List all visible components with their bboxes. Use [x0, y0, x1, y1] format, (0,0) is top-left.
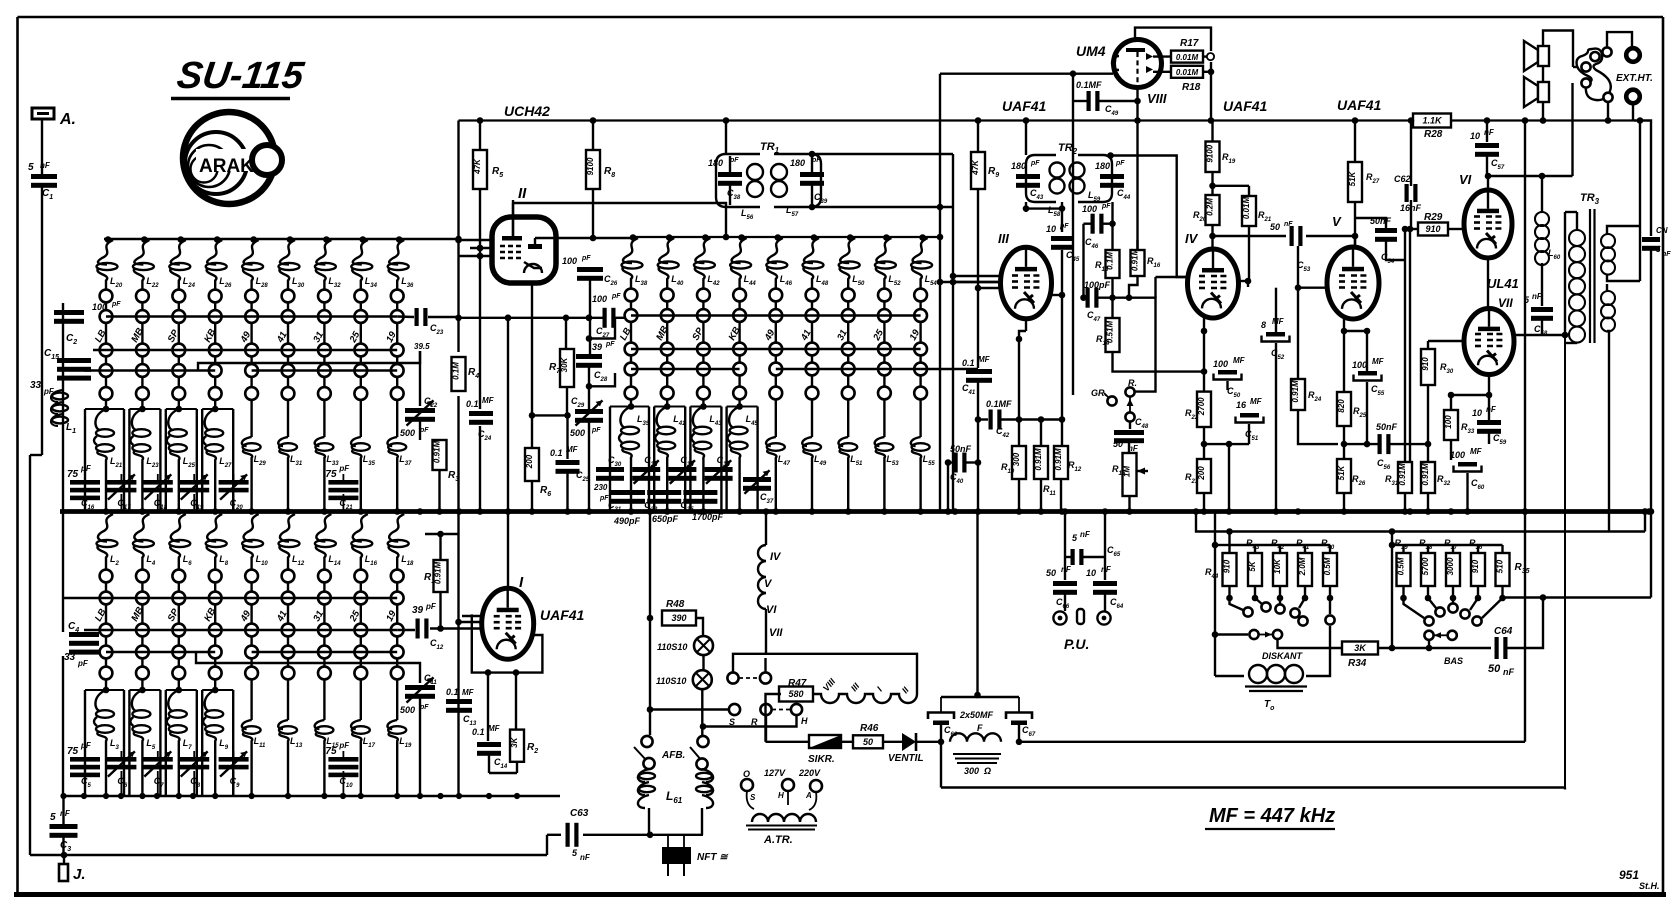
svg-text:820: 820	[1337, 399, 1346, 413]
svg-text:MF: MF	[1470, 447, 1483, 456]
label VIII	[1147, 91, 1167, 106]
label L61	[666, 789, 683, 805]
switch contact row5 col8 middle	[878, 387, 891, 400]
wire C56 right	[1390, 441, 1431, 448]
svg-text:0.51M: 0.51M	[1106, 321, 1115, 344]
svg-text:180: 180	[790, 158, 805, 168]
capacitor C30	[596, 455, 624, 481]
switch contact row1 col3 upper-left	[172, 290, 185, 303]
wire stem middle	[919, 301, 921, 407]
TR3 secondary lower	[1601, 291, 1615, 332]
svg-text:390: 390	[671, 613, 686, 623]
switch contact row3 col3 lower-left	[172, 624, 185, 637]
vertical x1410	[1409, 229, 1411, 462]
svg-text:51K: 51K	[1337, 464, 1346, 480]
plug contact a	[1581, 62, 1590, 71]
GR contact	[1091, 388, 1117, 406]
svg-text:UAF41: UAF41	[1337, 97, 1382, 113]
switch contact row2 col2 middle	[661, 309, 674, 322]
wire left bank top bus	[104, 238, 459, 240]
switch contact row4 col2 lower-left	[136, 646, 149, 659]
PU terminal b	[1097, 611, 1110, 624]
svg-text:910: 910	[1223, 559, 1232, 573]
svg-text:pF: pF	[729, 157, 739, 164]
svg-text:VENTIL: VENTIL	[888, 753, 924, 764]
wire PU right	[1104, 512, 1106, 612]
dot x1525 bus	[1522, 117, 1529, 515]
wire stem upper-left	[396, 302, 398, 409]
switch contact row3 col8 middle	[878, 343, 891, 356]
wire row3 link upper-left	[93, 349, 397, 351]
wire y415 link	[532, 412, 571, 419]
resistor R41 2.0M	[1296, 538, 1312, 601]
wire lamp link	[702, 655, 704, 670]
svg-text:300: 300	[964, 766, 979, 776]
resistor R10 300	[1001, 446, 1026, 512]
svg-text:MF: MF	[1272, 317, 1285, 326]
switch contact row2 col9 middle	[914, 309, 927, 322]
svg-text:0.5M: 0.5M	[1397, 557, 1406, 575]
wire PU left	[1064, 512, 1066, 612]
svg-text:0.91M: 0.91M	[1054, 448, 1063, 471]
switch contact row4 col9 middle	[914, 363, 927, 376]
wire TR2 feeds	[1023, 117, 1188, 277]
svg-text:UAF41: UAF41	[1223, 98, 1268, 114]
capacitor C47 100pF	[1084, 280, 1133, 323]
svg-text:pF: pF	[1101, 203, 1111, 210]
band label 19 upper-left	[384, 329, 399, 344]
svg-text:A: A	[805, 791, 812, 800]
svg-text:R34: R34	[1348, 658, 1367, 669]
inductor L36	[388, 236, 414, 290]
switch contact row4 col5 upper-left	[245, 364, 258, 377]
switch contact row1 col1 upper-left	[100, 290, 113, 303]
mains transformer A.TR.	[741, 768, 822, 846]
resistor R48 390	[662, 599, 696, 626]
wire stem middle	[883, 301, 885, 407]
switch contact row4 col1 middle	[625, 363, 638, 376]
svg-text:5: 5	[28, 162, 34, 173]
capacitor C7	[143, 751, 173, 796]
switch contact row4 col3 lower-left	[172, 646, 185, 659]
inductor L19	[387, 690, 412, 796]
svg-text:CN: CN	[1656, 226, 1668, 235]
svg-text:H: H	[778, 791, 784, 800]
svg-text:5: 5	[1656, 245, 1661, 254]
switch contact row5 col7 lower-left	[318, 667, 331, 680]
switch contact row1 col8 middle	[878, 289, 891, 302]
svg-text:VIII: VIII	[1147, 91, 1167, 106]
choke 300ohm	[941, 724, 1019, 776]
svg-text:J.: J.	[73, 866, 86, 883]
switch box col4 upper-left	[202, 406, 233, 512]
inductor L24	[169, 236, 195, 290]
wire TR3 sec upper ends	[1607, 117, 1643, 281]
fuse SIKR	[808, 735, 841, 765]
svg-text:nF: nF	[40, 161, 51, 170]
svg-text:R17: R17	[1180, 38, 1199, 49]
svg-text:nF: nF	[1080, 530, 1091, 539]
diode VENTIL	[888, 733, 924, 764]
svg-text:10: 10	[1086, 568, 1096, 578]
band label LB upper-left	[93, 328, 109, 344]
wire ground return	[941, 742, 1565, 788]
svg-text:R29: R29	[1424, 212, 1443, 223]
switch contact row5 col2 upper-left	[136, 387, 149, 400]
wire R48 right	[696, 618, 703, 636]
svg-text:nF: nF	[1284, 221, 1293, 228]
svg-text:0.91M: 0.91M	[1291, 380, 1300, 403]
resistor R20 0.2M	[1193, 195, 1220, 225]
svg-text:2.0M: 2.0M	[1298, 557, 1307, 576]
switch contact row4 col4 upper-left	[209, 364, 222, 377]
electrolytic C50 100MF	[1213, 356, 1246, 399]
svg-text:pF: pF	[605, 341, 615, 348]
switch contact row2 col5 lower-left	[245, 592, 258, 605]
diskant contact 4	[1290, 598, 1307, 626]
wire y73.7 UM4 line	[940, 70, 1113, 77]
wire stem upper-left	[323, 302, 325, 409]
wire R20 bottom	[1209, 225, 1216, 249]
switch contact row3 col9 upper-left	[391, 344, 404, 357]
wire stem lower-left	[105, 582, 107, 690]
inductor L45	[728, 407, 759, 512]
svg-text:MF: MF	[462, 688, 475, 697]
switch contact row2 col2 lower-left	[136, 592, 149, 605]
wire stem middle	[666, 301, 668, 407]
wire rowD link lower-left	[106, 652, 420, 673]
capacitor C64b 10nF	[1086, 565, 1124, 610]
svg-text:100: 100	[562, 256, 577, 266]
capacitor C66 50nF	[1046, 565, 1077, 610]
resistor R39 0.5M	[1395, 538, 1411, 601]
wire bas arm out	[1426, 640, 1491, 651]
resistor R32 0.91M	[1421, 385, 1451, 512]
switch contact row5 col8 upper-left	[354, 387, 367, 400]
band label 31 middle	[835, 328, 850, 343]
wire TR3 sec lower	[1607, 284, 1609, 532]
wire y317.8 bus	[455, 315, 631, 322]
switch contact sel a	[727, 672, 738, 683]
capacitor C42 0.1MF	[978, 399, 1062, 439]
band label 19 lower-left	[384, 608, 399, 623]
capacitor C48 50nF	[1113, 417, 1149, 453]
diskant contact 1	[1230, 598, 1253, 617]
label MF=447kHz	[1205, 805, 1335, 829]
switch contact row5 col3 lower-left	[172, 667, 185, 680]
switch contact row2 col4 middle	[733, 309, 746, 322]
switch contact row2 col8 middle	[878, 309, 891, 322]
svg-text:0.1MF: 0.1MF	[986, 399, 1012, 409]
band label MB lower-left	[129, 605, 146, 623]
capacitor C3 5nF	[50, 796, 78, 855]
wire diskant top	[1230, 544, 1331, 546]
switch contact row4 col2 upper-left	[136, 364, 149, 377]
svg-text:BAS: BAS	[1444, 656, 1463, 666]
switch contact row3 col2 lower-left	[136, 624, 149, 637]
band label 41 lower-left	[274, 609, 289, 624]
capacitor C10	[325, 741, 358, 796]
switch contact row5 col6 middle	[806, 387, 819, 400]
switch contact row4 col3 middle	[697, 363, 710, 376]
inductor L1	[51, 390, 76, 435]
heater winding chain IV-VII	[758, 512, 783, 654]
svg-text:V: V	[1332, 214, 1342, 229]
band label KB middle	[727, 325, 743, 342]
svg-text:910: 910	[1421, 357, 1430, 371]
wire bas top	[1404, 544, 1503, 546]
vertical x978	[975, 117, 982, 511]
resistor R25 820	[1337, 392, 1367, 459]
wire speaker mid	[1542, 66, 1544, 82]
label UAF41 (III)	[1002, 98, 1047, 114]
vertical x593 R8	[590, 117, 597, 241]
capacitor C53 50nF	[1270, 221, 1311, 273]
wire tube IV bottom	[1201, 318, 1208, 375]
inductor L22	[133, 236, 159, 290]
wire stem lower-left	[178, 582, 180, 690]
svg-text:nF: nF	[1532, 292, 1543, 301]
svg-text:180: 180	[1095, 161, 1110, 171]
wire tube III left leads	[937, 273, 1001, 292]
resistor R12 0.91M	[1054, 446, 1082, 512]
inductor L33	[315, 409, 340, 512]
label DISKANT	[1262, 651, 1304, 661]
inductor L52	[875, 234, 901, 289]
band label 31 lower-left	[311, 609, 326, 624]
switch contact row5 col5 upper-left	[245, 387, 258, 400]
switch contact row2 col9 lower-left	[391, 592, 404, 605]
capacitor C34	[668, 455, 696, 484]
switch contact row3 col5 lower-left	[245, 624, 258, 637]
switch contact row4 col9 lower-left	[391, 646, 404, 659]
wire VII left	[1428, 341, 1464, 349]
band label LB middle	[618, 326, 634, 342]
svg-text:VII: VII	[769, 627, 783, 639]
svg-text:MF: MF	[978, 355, 991, 364]
capacitor C58 5nF	[1524, 263, 1553, 337]
svg-text:UL41: UL41	[1487, 276, 1519, 291]
svg-text:pF: pF	[425, 602, 437, 611]
inductor L32	[315, 236, 341, 290]
svg-text:0.1M: 0.1M	[452, 362, 461, 380]
resistor R16 0.91M	[1129, 240, 1161, 298]
bas contact 4	[1460, 598, 1478, 619]
switch contact row4 col9 upper-left	[391, 364, 404, 377]
wire row4 link middle	[631, 368, 978, 370]
switch contact row2 col7 middle	[842, 309, 855, 322]
inductor L14	[315, 514, 341, 570]
wire diskant bottom dots	[1228, 597, 1230, 599]
capacitor C28 39pF	[576, 341, 615, 383]
switch contact row5 col2 middle	[661, 387, 674, 400]
svg-text:pF: pF	[611, 293, 621, 300]
svg-text:nF: nF	[580, 853, 591, 862]
title SU-115	[171, 54, 307, 98]
transformer NFT	[662, 835, 729, 876]
PU terminal a	[1053, 611, 1066, 624]
vertical x508 to tube I	[505, 315, 512, 589]
mains winding VIII III I II	[813, 676, 917, 703]
switch contact row3 col4 upper-left	[209, 344, 222, 357]
band label 49 middle	[762, 327, 777, 343]
switch box col2 lower-left	[129, 687, 160, 796]
wire speaker jack2	[1571, 83, 1573, 176]
resistor R46 50	[853, 723, 883, 748]
svg-text:pF: pF	[338, 464, 350, 473]
tube label IV	[1185, 231, 1199, 246]
inductor L53	[875, 407, 900, 512]
inductor L15	[315, 690, 340, 796]
vertical x459	[457, 121, 459, 797]
svg-text:5K: 5K	[1248, 560, 1257, 571]
switch contact row2 col7 lower-left	[318, 592, 331, 605]
switch contact row2 col2 upper-left	[136, 310, 149, 323]
svg-text:2700: 2700	[1197, 397, 1206, 416]
switch contact row4 col4 lower-left	[209, 646, 222, 659]
ARAKO logo	[183, 112, 282, 204]
wire lower bank coils from bus	[0, 0, 1, 1]
svg-text:100pF: 100pF	[1084, 280, 1111, 290]
dial lamp 110S10 b	[656, 670, 712, 689]
inductor L26	[206, 236, 232, 290]
capacitor C65 5nF	[1065, 530, 1121, 565]
resistor R18 0.01M	[1153, 66, 1203, 93]
svg-text:2x50MF: 2x50MF	[959, 710, 994, 720]
switch box col1 lower-left	[85, 687, 124, 796]
inductor L46	[766, 234, 792, 289]
svg-text:910: 910	[1471, 559, 1480, 573]
resistor R24 0.91M	[1291, 379, 1338, 444]
switch contact row1 col5 lower-left	[245, 570, 258, 583]
switch contact row4 col6 lower-left	[282, 646, 295, 659]
svg-text:100: 100	[1082, 204, 1097, 214]
svg-text:100: 100	[1450, 450, 1465, 460]
inductor L31	[278, 409, 303, 512]
switch contact row5 col3 upper-left	[172, 387, 185, 400]
capacitor C6	[106, 751, 136, 796]
wire C28-C29	[586, 366, 615, 409]
svg-text:0.91M: 0.91M	[433, 441, 442, 464]
plug contact b	[1581, 78, 1590, 87]
wire inner box bottom2	[1564, 788, 1566, 790]
inductor L27	[203, 409, 232, 512]
resistor R33 100	[1444, 392, 1475, 460]
coil L60	[1535, 173, 1561, 265]
tube UAF41 V	[1327, 247, 1379, 319]
coil To	[1215, 626, 1330, 712]
tube UM4 VIII	[1112, 40, 1162, 88]
capacitor C14 0.1MF	[472, 673, 508, 773]
svg-text:A.TR.: A.TR.	[763, 834, 793, 846]
switch contact row1 col9 upper-left	[391, 290, 404, 303]
vertical x940	[939, 74, 941, 512]
switch contact row1 col5 middle	[769, 289, 782, 302]
switch box col3 lower-left	[166, 687, 197, 796]
bas contact 5	[1472, 598, 1502, 626]
switch contact row4 col8 middle	[878, 363, 891, 376]
switch contact row5 col7 middle	[842, 387, 855, 400]
svg-text:S: S	[750, 793, 756, 802]
capacitor C20	[219, 474, 249, 512]
svg-text:180: 180	[708, 158, 723, 168]
capacitor C17	[106, 474, 136, 512]
tube VI	[1464, 190, 1512, 258]
resistor R36 910	[1469, 538, 1485, 601]
svg-text:nF: nF	[1061, 565, 1072, 574]
switch contact row2 col8 upper-left	[354, 310, 367, 323]
svg-text:0.91M: 0.91M	[1421, 463, 1430, 486]
capacitor C41 0.1MF	[962, 355, 992, 396]
capacitor C21	[325, 464, 358, 512]
svg-text:39.5: 39.5	[414, 342, 430, 351]
wire I stage bottoms	[459, 696, 518, 773]
svg-text:0.01M: 0.01M	[1176, 68, 1199, 77]
svg-text:3K: 3K	[510, 736, 519, 747]
svg-text:47K: 47K	[473, 158, 482, 175]
svg-text:75: 75	[67, 746, 79, 757]
svg-text:nF: nF	[1484, 128, 1495, 137]
switch contact row2 col4 lower-left	[209, 592, 222, 605]
wire TR1 primary feed	[723, 117, 730, 240]
svg-text:C63: C63	[570, 808, 589, 819]
wire fuse-R46	[841, 741, 853, 743]
capacitor C2 100pF	[54, 301, 121, 346]
switch contact row1 col9 middle	[914, 289, 927, 302]
inductor L51	[838, 407, 863, 512]
svg-text:nF: nF	[1101, 565, 1112, 574]
wire tube II left leads	[455, 236, 492, 260]
wire tube II plate line	[535, 237, 630, 239]
wire C69-C67 top	[941, 512, 1019, 699]
wire y229 grid VI	[1402, 226, 1418, 233]
inductor L38	[622, 234, 648, 289]
capacitor C16	[67, 464, 100, 512]
switch contact row2 col5 middle	[769, 309, 782, 322]
svg-text:3000: 3000	[1446, 557, 1455, 575]
electrolytic C55 100MF	[1352, 331, 1385, 447]
wire x1229 to R44	[1228, 532, 1230, 554]
svg-text:33: 33	[30, 380, 42, 391]
svg-text:pF: pF	[80, 741, 92, 750]
svg-text:III: III	[998, 231, 1009, 246]
capacitor C25 0.1MF	[550, 415, 590, 511]
wire H down	[703, 715, 797, 727]
wire stem upper-left	[105, 302, 107, 409]
inductor L55	[911, 407, 936, 512]
switch contact row1 col3 middle	[697, 289, 710, 302]
resistor R13 0.1M	[1095, 250, 1120, 301]
wire R1 vertical	[425, 531, 459, 632]
antenna A.	[32, 108, 76, 128]
capacitor C27 100pF	[592, 293, 621, 339]
speaker plug outline	[1577, 49, 1611, 101]
resistor R7 30K	[549, 318, 574, 416]
svg-text:UAF41: UAF41	[1002, 98, 1047, 114]
inductor L7	[167, 690, 193, 796]
tube UCH42 II	[492, 200, 556, 283]
svg-text:47K: 47K	[971, 159, 980, 176]
capacitor C22 500pF	[400, 351, 438, 440]
svg-text:0.1: 0.1	[446, 687, 459, 697]
plug contact c	[1590, 52, 1599, 61]
wire R down	[765, 715, 767, 742]
wire lamp down	[700, 689, 707, 741]
svg-text:300: 300	[1012, 452, 1021, 466]
resistor R3 0.91M	[433, 440, 460, 512]
svg-text:50: 50	[1046, 568, 1056, 578]
switch box col1 upper-left	[85, 406, 124, 512]
